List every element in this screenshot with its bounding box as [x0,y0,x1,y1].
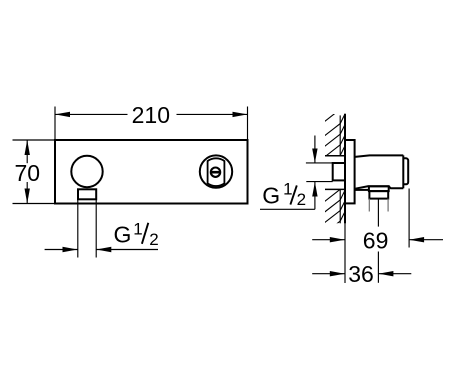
svg-text:2: 2 [297,190,306,209]
svg-text:1: 1 [133,219,142,238]
svg-text:36: 36 [348,261,374,287]
svg-text:G: G [262,183,280,209]
svg-text:69: 69 [363,227,389,253]
svg-text:2: 2 [149,230,158,249]
svg-text:70: 70 [15,160,41,186]
svg-text:210: 210 [132,102,170,128]
svg-text:G: G [114,222,132,248]
svg-text:1: 1 [283,180,292,199]
